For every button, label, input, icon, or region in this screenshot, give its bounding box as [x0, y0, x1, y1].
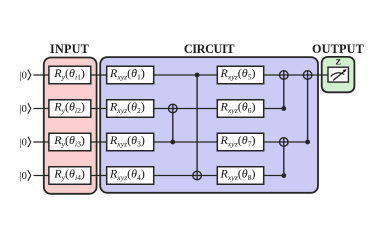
svg-text:|0: |0 — [20, 70, 27, 81]
svg-text:|0: |0 — [20, 104, 27, 115]
svg-text:|0: |0 — [20, 171, 27, 182]
svg-text:Ry(θi2): Ry(θi2) — [53, 100, 85, 116]
svg-text:|0: |0 — [20, 137, 27, 148]
svg-text:OUTPUT: OUTPUT — [312, 42, 364, 56]
svg-text:CIRCUIT: CIRCUIT — [184, 42, 235, 56]
svg-text:INPUT: INPUT — [50, 42, 89, 56]
svg-text:Ry(θi4): Ry(θi4) — [53, 167, 85, 183]
svg-text:Ry(θi3): Ry(θi3) — [53, 133, 85, 149]
svg-text:Ry(θi1): Ry(θi1) — [53, 66, 85, 82]
svg-text:Z: Z — [335, 57, 341, 67]
